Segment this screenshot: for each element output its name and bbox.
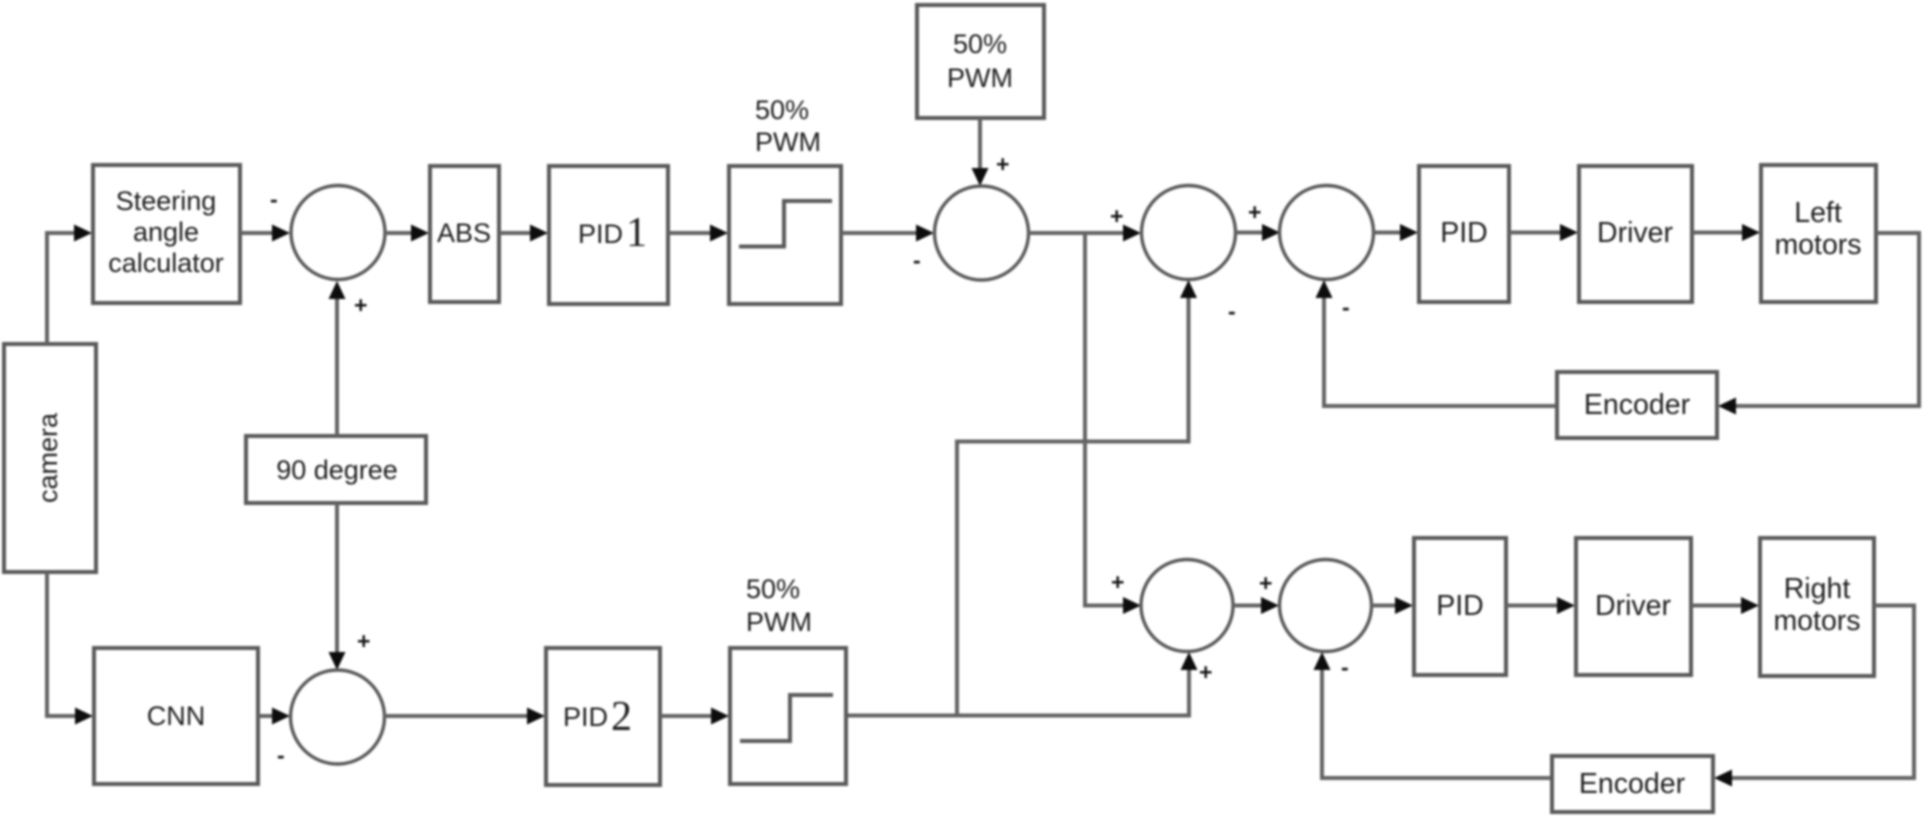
summing junction S5 — [1141, 560, 1233, 652]
svg-text:+: + — [357, 628, 370, 654]
wire Right motors to Encoder bottom — [1714, 606, 1914, 787]
svg-text:50%: 50% — [953, 29, 1007, 59]
svg-text:PID: PID — [578, 219, 623, 249]
wire Encoder top to S4 bottom — [1316, 280, 1557, 406]
wire saturation2 to S5 bottom and branch to S3 bottom — [845, 280, 1198, 716]
wire S5 to summing junction S6 — [1233, 597, 1279, 614]
wire Steering to summing junction S1 — [240, 225, 290, 242]
svg-text:+: + — [996, 151, 1009, 177]
wire S6 to PID right loop — [1371, 597, 1413, 614]
svg-text:-: - — [270, 186, 278, 212]
svg-text:-: - — [1228, 298, 1236, 324]
svg-text:camera: camera — [33, 412, 63, 503]
wire PID to Driver bottom — [1506, 597, 1575, 614]
svg-text:PWM: PWM — [755, 127, 821, 157]
label 50% PWM above saturation2 — [746, 574, 812, 637]
summing junction S6 — [1280, 560, 1372, 652]
svg-text:-: - — [277, 742, 285, 768]
block Driver left — [1579, 166, 1692, 302]
svg-text:PWM: PWM — [947, 63, 1013, 93]
block Steering angle calculator — [93, 165, 240, 303]
wire PID1 to saturation1 — [668, 225, 728, 242]
svg-text:50%: 50% — [746, 574, 800, 604]
svg-text:motors: motors — [1773, 605, 1860, 637]
block PID right motors loop — [1414, 538, 1506, 675]
svg-text:+: + — [1111, 569, 1124, 595]
wire S7 to PID2 — [384, 708, 545, 725]
block 90 degree — [246, 436, 426, 503]
block PID2 — [546, 648, 660, 785]
svg-text:Driver: Driver — [1595, 590, 1672, 622]
svg-text:ABS: ABS — [437, 218, 491, 248]
wire Left motors to Encoder top — [1718, 233, 1919, 415]
block camera — [4, 344, 96, 572]
wire ABS to PID1 — [499, 225, 548, 242]
svg-text:Driver: Driver — [1597, 217, 1674, 249]
block 50% PWM source — [917, 5, 1044, 118]
svg-text:1: 1 — [626, 210, 647, 256]
svg-text:50%: 50% — [755, 95, 809, 125]
summing junction S7 — [291, 670, 385, 764]
wire PID2 to saturation2 — [660, 708, 729, 725]
svg-text:Right: Right — [1784, 573, 1851, 605]
svg-text:-: - — [1342, 294, 1350, 320]
svg-text:calculator: calculator — [108, 248, 224, 278]
block saturation1 — [729, 166, 841, 304]
svg-text:angle: angle — [133, 217, 199, 247]
block Right motors — [1760, 538, 1874, 676]
block ABS — [430, 166, 499, 302]
svg-text:CNN: CNN — [147, 701, 206, 731]
wire camera to CNN — [47, 572, 93, 725]
svg-text:90 degree: 90 degree — [276, 455, 398, 485]
wire CNN to S7 — [258, 708, 290, 725]
block PID left motors loop — [1419, 166, 1509, 302]
block saturation2 — [730, 648, 846, 784]
wire S3 to summing junction S4 — [1235, 224, 1280, 241]
block Encoder bottom — [1552, 756, 1713, 812]
wire PID to Driver — [1509, 224, 1578, 241]
svg-text:+: + — [1259, 570, 1272, 596]
wire S2 to summing junction S3 — [1028, 225, 1141, 242]
svg-text:PID: PID — [563, 702, 608, 732]
wire saturation1 to summing junction S2 — [841, 225, 934, 242]
svg-text:+: + — [1110, 203, 1123, 229]
svg-text:PWM: PWM — [746, 607, 812, 637]
svg-text:-: - — [1341, 654, 1349, 680]
wire S1 to ABS — [385, 225, 429, 242]
svg-text:Encoder: Encoder — [1579, 768, 1686, 800]
summing junction S1 — [291, 186, 385, 280]
wire Driver to Left motors — [1692, 224, 1760, 241]
svg-text:Left: Left — [1794, 197, 1842, 229]
svg-text:+: + — [354, 292, 367, 318]
svg-text:PID: PID — [1436, 590, 1484, 622]
block Encoder top — [1557, 372, 1717, 438]
wire 90 degree to S1 bottom — [329, 281, 346, 436]
block PID1 — [549, 166, 668, 304]
block Driver right — [1576, 538, 1691, 675]
wire S4 to PID left — [1373, 224, 1418, 241]
svg-text:-: - — [913, 247, 921, 273]
wire 90 degree to S7 top — [329, 503, 346, 670]
svg-text:+: + — [1248, 199, 1261, 225]
svg-text:Encoder: Encoder — [1584, 389, 1691, 421]
wire branch down to summing junction S5 — [1085, 233, 1141, 614]
wire 50% PWM source to S2 — [972, 118, 989, 186]
svg-text:+: + — [1199, 659, 1212, 685]
wire Encoder bottom to S6 bottom — [1314, 652, 1552, 778]
svg-text:Steering: Steering — [116, 186, 217, 216]
svg-text:2: 2 — [611, 694, 632, 740]
svg-text:motors: motors — [1774, 229, 1861, 261]
wire Driver to Right motors — [1691, 597, 1759, 614]
block CNN — [94, 648, 258, 784]
summing junction S2 — [935, 186, 1029, 280]
svg-text:PID: PID — [1440, 217, 1488, 249]
summing junction S4 — [1280, 186, 1374, 280]
summing junction S3 — [1142, 186, 1236, 280]
label 50% PWM above saturation1 — [755, 95, 821, 157]
wire camera to Steering angle calculator — [47, 225, 92, 345]
block Left motors — [1761, 165, 1876, 302]
